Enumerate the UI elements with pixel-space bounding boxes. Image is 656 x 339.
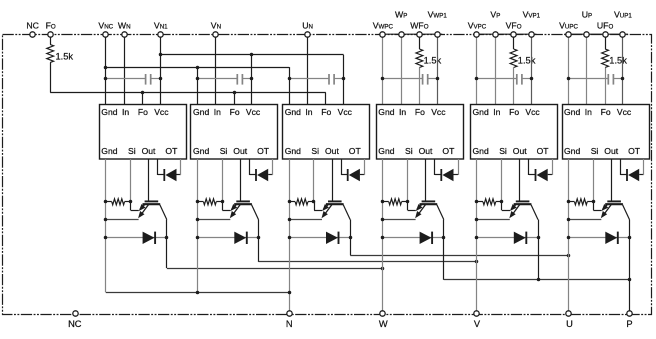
junction R3g to Si line [312, 200, 316, 204]
junction cap C2 to Gnd [196, 77, 200, 81]
terminal WP [399, 32, 404, 37]
wire driver2 Gnd/emitter vertical [197, 159, 199, 292]
junction R4g to Si line [406, 200, 410, 204]
diode D1a (OT sense) [163, 169, 165, 181]
junction collector2/V line [475, 260, 479, 264]
resistor R3g (Gnd-Si) [295, 199, 308, 205]
junction R2g to Gnd line [196, 200, 200, 204]
junction R4g to Gnd line [381, 200, 385, 204]
wire driver1 Gnd/emitter vertical [105, 159, 107, 292]
svg-text:Fo: Fo [321, 107, 331, 117]
resistor R5g (Gnd-Si) [483, 199, 496, 205]
wire resistor to driver4 Fo pin [419, 68, 421, 105]
wire emitter sense to Si [314, 210, 322, 212]
junction emitter/Gnd line [288, 218, 292, 222]
svg-text:V: V [474, 319, 481, 329]
wire resistor left [289, 201, 295, 203]
diode D3a (OT sense) [347, 169, 349, 181]
capacitor C1 [145, 74, 147, 85]
svg-text:Gnd: Gnd [193, 107, 209, 117]
svg-text:Out: Out [419, 146, 433, 156]
capacitor C5 [516, 74, 518, 85]
wire resistor left [106, 201, 112, 203]
driver IC U2 [191, 105, 278, 160]
wire resistor left [569, 201, 575, 203]
terminal VNC [103, 32, 108, 37]
wire OT diode cathode link [177, 174, 182, 176]
terminal VP [493, 32, 498, 37]
junction cap C5 to Vcc [530, 77, 534, 81]
wire freewheel diode D2 row [198, 237, 259, 239]
wire emitter to Gnd line [289, 219, 322, 221]
junction VN1/Vcc rail [159, 53, 163, 57]
junction R1g to Gnd line [104, 200, 108, 204]
driver IC U1 [100, 105, 187, 160]
junction emitter/Gnd line [196, 218, 200, 222]
wire Vcc rail down to driver3 Vcc pin [343, 55, 345, 104]
junction D5 anode [475, 236, 479, 240]
junction Vcc rail driver2 [250, 53, 254, 57]
svg-text:Fo: Fo [415, 107, 425, 117]
terminal VVPC [474, 32, 479, 37]
wire capacitor C3 left [289, 78, 329, 80]
wire F0 resistor bottom down [50, 63, 52, 93]
junction VNC/Gnd rail [104, 66, 108, 70]
svg-text:N: N [286, 319, 293, 329]
svg-text:OT: OT [537, 146, 550, 156]
svg-text:Gnd: Gnd [285, 146, 301, 156]
resistor R2g (Gnd-Si) [204, 199, 217, 205]
wire resistor left [198, 201, 204, 203]
junction cap C6 to Vcc [621, 77, 625, 81]
junction Fo rail driver2 [233, 91, 237, 95]
svg-text:Vcc: Vcc [617, 107, 632, 117]
wire driver2 OT right stub [272, 159, 274, 175]
wire driver6 OT diode left stub [620, 159, 622, 175]
svg-text:Fo: Fo [138, 107, 148, 117]
terminal VN [213, 32, 218, 37]
wire driver2 Out pin to IGBT gate [240, 159, 242, 201]
wire capacitor C4 right [428, 78, 438, 80]
diode D5 (freewheel) [514, 232, 526, 244]
wire driver3 Out pin to IGBT gate [332, 159, 334, 201]
wire Vxp1 terminal to driver6 Vcc pin [622, 34, 624, 104]
terminal NC (top) [30, 32, 35, 37]
wire freewheel diode D3 row [289, 237, 350, 239]
terminal VVP1 [529, 32, 534, 37]
junction D2 anode [196, 236, 200, 240]
junction collector3/U line [567, 254, 571, 258]
svg-text:Gnd: Gnd [193, 146, 209, 156]
wire freewheel diode D4 row [383, 237, 444, 239]
svg-text:Out: Out [604, 146, 618, 156]
wire Q3 collector to U [350, 255, 568, 257]
wire Gnd rail VNC to N-side drivers y=67 [106, 67, 289, 69]
svg-text:Si: Si [591, 146, 599, 156]
wire driver1 Out pin to IGBT gate [148, 159, 150, 201]
svg-text:Gnd: Gnd [473, 146, 489, 156]
wire driver3 Si pin down [313, 159, 315, 202]
junction cap C3 to Gnd [288, 77, 292, 81]
wire OT diode anode link [620, 174, 627, 176]
diode D5a (OT sense) [535, 169, 537, 181]
wire emitter sense to Si [593, 210, 601, 212]
wire F0 terminal to resistor [50, 37, 52, 44]
wire capacitor C6 right [613, 78, 623, 80]
wire capacitor C2 left [198, 78, 238, 80]
capacitor C4 [422, 74, 424, 85]
wire N bus emitters [106, 292, 289, 294]
wire OT diode anode link [529, 174, 536, 176]
wire emitter sense to Si [222, 210, 230, 212]
terminal VN1 [158, 32, 163, 37]
wire OT diode cathode link [548, 174, 553, 176]
terminal VUPC [566, 32, 571, 37]
wire capacitor C1 left [106, 78, 146, 80]
svg-text:Gnd: Gnd [564, 107, 580, 117]
wire resistor to driver6 Fo pin [605, 68, 607, 105]
svg-text:NC: NC [26, 20, 39, 30]
junction D4 anode [381, 236, 385, 240]
wire resistor left [383, 201, 389, 203]
junction N bus to N terminal [288, 291, 292, 295]
svg-text:Si: Si [499, 146, 507, 156]
wire driver3 Gnd/emitter vertical [289, 159, 291, 314]
svg-text:Out: Out [233, 146, 247, 156]
wire Vxpc terminal to driver6 Gnd pin [568, 34, 570, 104]
terminal WN [122, 32, 127, 37]
junction D5 cathode [537, 236, 541, 240]
junction R1g to Si line [129, 200, 133, 204]
wire Q3 collector down [350, 220, 352, 256]
wire emitter sense to Si [131, 210, 139, 212]
wire emitter to Gnd line [106, 219, 139, 221]
svg-text:OT: OT [628, 146, 641, 156]
wire driver6 Gnd/emitter vertical [568, 159, 570, 314]
wire driver6 Si pin down [593, 159, 595, 202]
wire driver3 OT diode left stub [341, 159, 343, 175]
diode D1 (freewheel) [143, 232, 155, 244]
diode D4a (OT sense) [440, 169, 442, 181]
junction R3g to Gnd line [288, 200, 292, 204]
resistor R1g (Gnd-Si) [112, 199, 125, 205]
wire emitter to Gnd line [477, 219, 510, 221]
junction emitter2/N bus [196, 291, 200, 295]
resistor 1.5k (driver4 Fo) [416, 49, 423, 68]
wire OT diode cathode link [454, 174, 459, 176]
junction emitter/Gnd line [567, 218, 571, 222]
wire driver3 OT right stub [364, 159, 366, 175]
svg-text:Gnd: Gnd [378, 107, 394, 117]
svg-text:Out: Out [513, 146, 527, 156]
wire Vxp1 terminal to driver4 Vcc pin [437, 34, 439, 104]
resistor 1.5k (driver6 Fo) [602, 49, 609, 68]
capacitor C3 [328, 74, 330, 85]
junction cap C6 to Gnd [567, 77, 571, 81]
junction Fo rail driver1 [141, 91, 145, 95]
wire OT diode anode link [249, 174, 256, 176]
junction cap C1 to Vcc [159, 77, 163, 81]
wire resistor right [496, 201, 502, 203]
wire Q1 collector down [166, 220, 168, 268]
junction R6g to Gnd line [567, 200, 571, 204]
wire capacitor C3 right [334, 78, 344, 80]
terminal UN [305, 32, 310, 37]
svg-text:Gnd: Gnd [101, 146, 117, 156]
wire OT diode cathode link [639, 174, 644, 176]
transistor Q3 (IGBT) [323, 201, 350, 219]
svg-text:Out: Out [325, 146, 339, 156]
junction R6g to Si line [592, 200, 596, 204]
wire Q4 collector down [443, 220, 445, 280]
junction P bus/P line [628, 278, 632, 282]
junction cap C4 to Vcc [436, 77, 440, 81]
wire capacitor C2 right [242, 78, 252, 80]
wire freewheel diode D6 row [569, 237, 630, 239]
junction emitter/Gnd line [104, 218, 108, 222]
svg-text:Gnd: Gnd [101, 107, 117, 117]
wire input terminal to driver5 In pin [495, 34, 497, 104]
wire Vxpc terminal to driver5 Gnd pin [476, 34, 478, 104]
wire emitter to Gnd line [198, 219, 231, 221]
svg-text:In: In [493, 107, 500, 117]
wire Gnd rail down to driver2 Gnd pin [197, 67, 199, 104]
junction cap C1 to Gnd [104, 77, 108, 81]
svg-text:Vcc: Vcc [338, 107, 353, 117]
wire xF0 terminal to resistor [513, 34, 515, 49]
wire OT diode anode link [158, 174, 165, 176]
svg-text:1.5k: 1.5k [424, 55, 442, 65]
junction cap C4 to Gnd [381, 77, 385, 81]
svg-text:In: In [214, 107, 221, 117]
terminal UF0 [603, 32, 608, 37]
junction collector1/W line [381, 267, 385, 271]
terminal VWP1 [435, 32, 440, 37]
wire driver1 OT diode left stub [157, 159, 159, 175]
wire resistor to driver5 Fo pin [513, 68, 515, 105]
junction R5g to Si line [500, 200, 504, 204]
wire input terminal to driver6 In pin [586, 34, 588, 104]
junction D1 cathode [165, 236, 169, 240]
svg-text:Gnd: Gnd [564, 146, 580, 156]
driver IC U5 [471, 105, 558, 160]
terminal VWPC [380, 32, 385, 37]
junction D6 anode [567, 236, 571, 240]
wire input terminal to driver1 In pin [124, 34, 126, 104]
wire input terminal to driver4 In pin [401, 34, 403, 104]
wire OT diode anode link [341, 174, 348, 176]
wire Vxp1 terminal to driver5 Vcc pin [531, 34, 533, 104]
junction R2g to Si line [221, 200, 225, 204]
wire driver1 OT right stub [180, 159, 182, 175]
wire OT diode anode link [435, 174, 442, 176]
junction Gnd rail driver2 [196, 66, 200, 70]
wire capacitor C4 left [383, 78, 423, 80]
wire emitter to Gnd line [383, 219, 416, 221]
diode D3 (freewheel) [326, 232, 338, 244]
wire driver4 OT right stub [458, 159, 460, 175]
junction D6 cathode [628, 236, 632, 240]
wire Gnd rail down to driver3 Gnd pin [289, 67, 291, 104]
wire xF0 terminal to resistor [419, 34, 421, 49]
diode D2 (freewheel) [234, 232, 246, 244]
wire driver5 OT diode left stub [528, 159, 530, 175]
svg-text:Vcc: Vcc [431, 107, 446, 117]
transistor Q5 (IGBT) [511, 201, 538, 219]
diode D6a (OT sense) [626, 169, 628, 181]
junction D4 cathode [442, 236, 446, 240]
wire resistor right [308, 201, 314, 203]
wire Q2 collector to V [259, 261, 478, 263]
wire capacitor C6 left [569, 78, 609, 80]
terminal N [287, 311, 292, 316]
wire xF0 terminal to resistor [605, 34, 607, 49]
svg-text:Gnd: Gnd [285, 107, 301, 117]
terminal V (output) [474, 311, 479, 316]
svg-text:In: In [399, 107, 406, 117]
svg-text:Si: Si [311, 146, 319, 156]
svg-text:P: P [626, 319, 632, 329]
wire OT diode cathode link [360, 174, 365, 176]
resistor 1.5k (F0 pull-up) [47, 45, 54, 63]
wire solid terminal link group 6 [565, 33, 628, 35]
svg-text:OT: OT [442, 146, 455, 156]
terminal WF0 [417, 32, 422, 37]
wire Vcc rail down to driver2 Vcc pin [251, 55, 253, 104]
transistor Q1 (IGBT) [140, 201, 167, 219]
transistor Q6 (IGBT) [603, 201, 630, 219]
wire OT diode cathode link [268, 174, 273, 176]
driver IC U3 [283, 105, 370, 160]
capacitor C2 [236, 74, 238, 85]
wire emitter sense to Si [408, 210, 416, 212]
junction D1 anode [104, 236, 108, 240]
wire Q5 collector down to P bus [538, 220, 540, 280]
svg-text:Vcc: Vcc [525, 107, 540, 117]
wire solid terminal link group 4 [379, 33, 442, 35]
driver IC U4 [377, 105, 464, 160]
svg-text:NC: NC [68, 319, 82, 329]
svg-text:OT: OT [349, 146, 362, 156]
svg-text:In: In [305, 107, 312, 117]
wire driver1 Si pin down [130, 159, 132, 202]
resistor 1.5k (driver5 Fo) [510, 49, 517, 68]
wire resistor right [125, 201, 131, 203]
wire Fo rail down to driver3 Fo pin [325, 93, 327, 105]
junction collector5/P bus [537, 278, 541, 282]
wire capacitor C1 right [151, 78, 161, 80]
junction cap C2 to Vcc [250, 77, 254, 81]
resistor R4g (Gnd-Si) [389, 199, 402, 205]
transistor Q2 (IGBT) [232, 201, 259, 219]
wire emitter to Gnd line [569, 219, 602, 221]
wire Vxpc terminal to driver4 Gnd pin [382, 34, 384, 104]
wire freewheel diode D1 row [106, 237, 167, 239]
svg-text:OT: OT [165, 146, 178, 156]
junction R5g to Gnd line [475, 200, 479, 204]
wire driver5 Gnd/emitter vertical [476, 159, 478, 314]
wire driver6 Out pin to IGBT gate [611, 159, 613, 201]
wire driver2 OT diode left stub [249, 159, 251, 175]
svg-text:Si: Si [220, 146, 228, 156]
wire solid terminal link group 5 [473, 33, 536, 35]
svg-text:Fo: Fo [509, 107, 519, 117]
svg-text:Gnd: Gnd [378, 146, 394, 156]
wire P bus to P terminal [444, 279, 630, 281]
svg-text:Vcc: Vcc [154, 107, 169, 117]
junction emitter/Gnd line [381, 218, 385, 222]
wire freewheel diode D5 row [477, 237, 538, 239]
wire Fo rail down to driver2 Fo pin [234, 93, 236, 105]
junction cap C5 to Gnd [475, 77, 479, 81]
terminal UP [584, 32, 589, 37]
diode D4 (freewheel) [420, 232, 432, 244]
wire Vcc rail VN1 to N-side drivers y=55 [160, 54, 343, 56]
terminal W (output) [380, 311, 385, 316]
diode D2a (OT sense) [255, 169, 257, 181]
wire input terminal to driver2 In pin [215, 34, 217, 104]
svg-text:In: In [585, 107, 592, 117]
wire capacitor C5 right [522, 78, 532, 80]
terminal F0 [48, 32, 53, 37]
svg-text:Out: Out [142, 146, 156, 156]
junction D3 cathode [349, 236, 353, 240]
svg-text:Fo: Fo [601, 107, 611, 117]
junction emitter/Gnd line [475, 218, 479, 222]
wire Fo rail to N-side drivers y=92.5 [50, 92, 326, 94]
wire driver5 OT right stub [552, 159, 554, 175]
svg-text:In: In [122, 107, 129, 117]
wire Q6 collector down to P terminal [629, 220, 631, 314]
resistor R6g (Gnd-Si) [575, 199, 588, 205]
transistor Q4 (IGBT) [417, 201, 444, 219]
wire driver5 Si pin down [501, 159, 503, 202]
svg-text:OT: OT [257, 146, 270, 156]
svg-text:Si: Si [405, 146, 413, 156]
wire VNC to driver1 Gnd pin [105, 34, 107, 104]
wire Q1 collector to W [167, 268, 383, 270]
wire resistor left [477, 201, 483, 203]
wire driver2 Si pin down [222, 159, 224, 202]
junction cap C3 to Vcc [342, 77, 346, 81]
wire emitter sense to Si [502, 210, 510, 212]
wire capacitor C5 left [477, 78, 517, 80]
svg-text:1.5k: 1.5k [56, 51, 74, 61]
wire driver6 OT right stub [643, 159, 645, 175]
svg-text:Vcc: Vcc [246, 107, 261, 117]
terminal NC (bottom) [73, 311, 78, 316]
wire driver4 OT diode left stub [434, 159, 436, 175]
svg-text:Si: Si [128, 146, 136, 156]
junction D2 cathode [257, 236, 261, 240]
wire resistor right [587, 201, 593, 203]
wire Fo rail down to driver1 Fo pin [142, 93, 144, 105]
terminal VF0 [511, 32, 516, 37]
capacitor C6 [607, 74, 609, 85]
svg-text:U: U [566, 319, 573, 329]
svg-text:1.5k: 1.5k [609, 55, 627, 65]
wire input terminal to driver3 In pin [307, 34, 309, 104]
wire driver4 Gnd/emitter vertical [382, 159, 384, 314]
wire driver4 Si pin down [407, 159, 409, 202]
svg-text:Fo: Fo [230, 107, 240, 117]
driver IC U6 [563, 105, 650, 160]
wire resistor right [402, 201, 408, 203]
svg-text:W: W [379, 319, 388, 329]
svg-text:Gnd: Gnd [473, 107, 489, 117]
terminal P [627, 311, 632, 316]
diode D6 (freewheel) [605, 232, 617, 244]
